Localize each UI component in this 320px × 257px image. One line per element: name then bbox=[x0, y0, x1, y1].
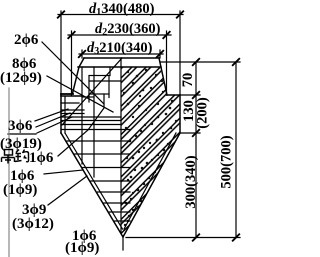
cone stirrups bbox=[61, 129, 130, 131]
svg-text:70: 70 bbox=[180, 73, 196, 88]
dimension d3 line bbox=[79, 53, 163, 55]
center bar bbox=[120, 58, 122, 232]
hook leg 1 bbox=[103, 94, 105, 107]
svg-text:500(700): 500(700) bbox=[219, 135, 235, 188]
outline: top edge bbox=[84, 57, 159, 59]
hook rectangle bbox=[89, 76, 109, 95]
hatched concrete section (right half) bbox=[121, 67, 180, 236]
inner bar parallel to cone left edge bbox=[65, 133, 123, 229]
leader hook bbox=[58, 108, 104, 156]
svg-text:(200): (200) bbox=[195, 97, 211, 129]
svg-text:300(340): 300(340) bbox=[183, 155, 199, 208]
cone left edge bbox=[61, 133, 123, 237]
collar right edge bbox=[179, 95, 181, 133]
vertical bar x=82 bbox=[81, 67, 83, 164]
dimension d2 line bbox=[68, 34, 171, 36]
right slope bbox=[159, 58, 167, 95]
hanzi diao bbox=[5, 150, 13, 156]
collar stirrups bbox=[61, 102, 79, 104]
svg-text:(1ϕ9): (1ϕ9) bbox=[3, 182, 37, 198]
left ledge bbox=[61, 93, 73, 95]
inner bar parallel to cone right edge bbox=[124, 133, 176, 229]
extension lines top bbox=[60, 11, 62, 95]
leader 3phi9 bbox=[48, 176, 87, 205]
leader 8phi6 bbox=[47, 76, 113, 112]
tip extension bbox=[122, 237, 124, 250]
left slope bbox=[73, 58, 85, 94]
collar inner vertical bar bbox=[64, 97, 66, 133]
hook base line bbox=[82, 96, 94, 98]
ticks top dims bbox=[58, 11, 239, 240]
cone right edge bbox=[123, 133, 180, 237]
3phi6 underline bbox=[8, 133, 36, 135]
concrete dots bbox=[123, 69, 177, 226]
stray page line bbox=[8, 88, 10, 257]
hook leg 3 bbox=[88, 94, 90, 102]
vertical bar x=94 bbox=[93, 67, 95, 177]
leader 3phi6 bbox=[62, 58, 122, 125]
right ledge bbox=[167, 94, 180, 96]
hook top bar bbox=[89, 80, 121, 82]
svg-text:1ϕ6: 1ϕ6 bbox=[29, 150, 54, 166]
hanzi diaogou (drawn) bbox=[2, 150, 29, 164]
collar left edge bbox=[60, 94, 62, 133]
svg-text:(3ϕ12): (3ϕ12) bbox=[12, 216, 54, 232]
svg-text:(12ϕ9): (12ϕ9) bbox=[0, 70, 42, 86]
bar at x=110 bbox=[109, 67, 111, 76]
inner top line bbox=[78, 66, 161, 68]
svg-text:(1ϕ9): (1ϕ9) bbox=[65, 240, 99, 256]
ticks right chains bbox=[193, 59, 199, 65]
dimension d1 line bbox=[58, 14, 183, 16]
hook leg 2 bbox=[108, 94, 110, 98]
leader 2phi6 bbox=[42, 42, 104, 104]
right dimension chains bbox=[161, 61, 240, 63]
svg-text:2ϕ6: 2ϕ6 bbox=[14, 32, 39, 48]
leader 1phi6 mid bbox=[44, 170, 83, 174]
hanzi gou bbox=[15, 150, 22, 162]
svg-text:3ϕ6: 3ϕ6 bbox=[8, 118, 33, 134]
